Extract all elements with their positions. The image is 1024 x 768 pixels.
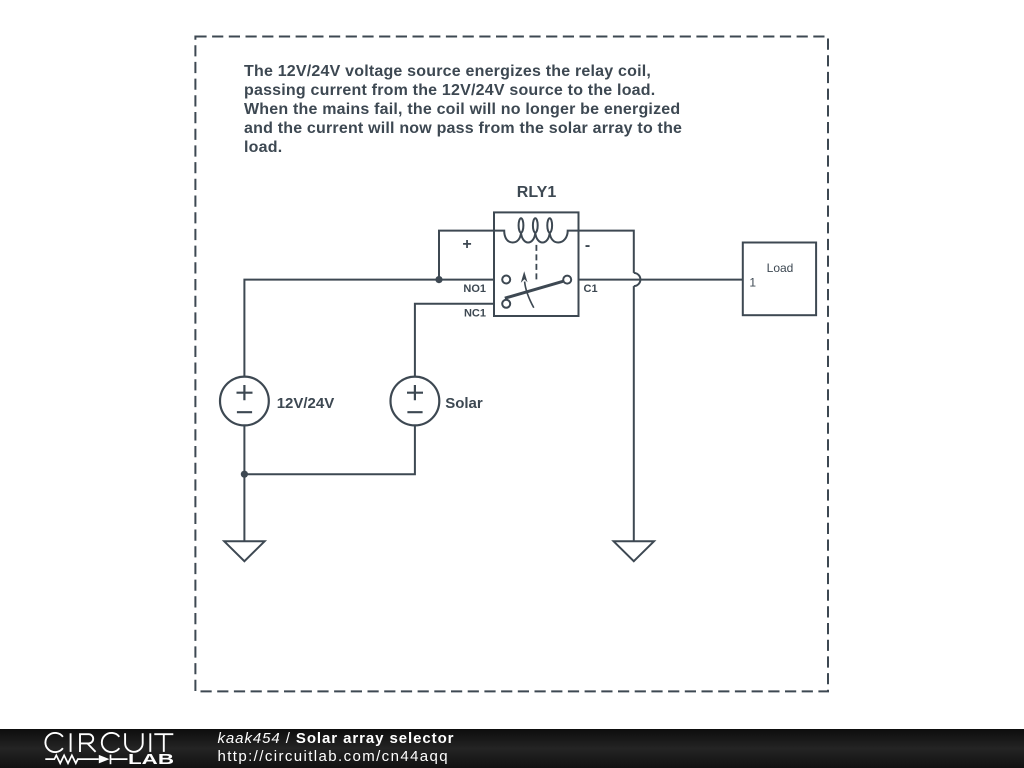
svg-text:Solar: Solar xyxy=(445,395,483,412)
svg-text:NC1: NC1 xyxy=(464,307,486,319)
svg-text:+: + xyxy=(462,236,471,253)
svg-text:C1: C1 xyxy=(584,283,598,295)
svg-text:12V/24V: 12V/24V xyxy=(277,395,335,412)
svg-text:-: - xyxy=(585,237,590,254)
svg-text:1: 1 xyxy=(749,276,756,290)
svg-text:LAB: LAB xyxy=(128,752,174,768)
svg-text:Load: Load xyxy=(767,261,794,275)
svg-text:NO1: NO1 xyxy=(463,283,486,295)
svg-text:RLY1: RLY1 xyxy=(517,184,557,201)
